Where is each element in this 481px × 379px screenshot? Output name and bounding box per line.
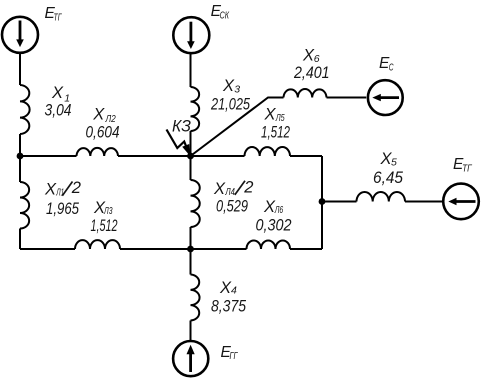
svg-text:Л1: Л1 xyxy=(56,187,65,199)
svg-text:2,401: 2,401 xyxy=(293,64,329,82)
svg-text:1,965: 1,965 xyxy=(46,200,80,218)
svg-text:3,04: 3,04 xyxy=(45,102,72,120)
svg-text:ГГ: ГГ xyxy=(230,351,239,362)
svg-text:3: 3 xyxy=(234,84,240,96)
svg-text:КЗ: КЗ xyxy=(172,118,191,136)
svg-text:0,302: 0,302 xyxy=(256,217,292,235)
svg-text:Л4: Л4 xyxy=(225,186,235,198)
svg-text:СК: СК xyxy=(220,11,230,22)
svg-text:X: X xyxy=(92,105,105,123)
svg-text:0,529: 0,529 xyxy=(216,198,248,216)
svg-text:4: 4 xyxy=(231,285,237,297)
svg-text:2: 2 xyxy=(243,178,253,196)
svg-text:5: 5 xyxy=(391,157,397,169)
svg-text:2: 2 xyxy=(71,179,81,197)
svg-text:21,025: 21,025 xyxy=(210,96,250,114)
svg-text:X: X xyxy=(213,180,226,198)
svg-text:Л5: Л5 xyxy=(275,112,285,124)
svg-text:С: С xyxy=(389,63,394,74)
svg-text:ТГ: ТГ xyxy=(462,164,473,175)
svg-text:1,512: 1,512 xyxy=(91,217,118,235)
svg-text:X: X xyxy=(222,77,235,95)
svg-text:6,45: 6,45 xyxy=(373,169,404,187)
svg-text:1,512: 1,512 xyxy=(261,124,290,142)
svg-text:X: X xyxy=(51,84,64,102)
svg-text:X: X xyxy=(44,181,57,199)
svg-text:8,375: 8,375 xyxy=(211,298,247,316)
svg-text:Л3: Л3 xyxy=(103,205,112,217)
svg-text:0,604: 0,604 xyxy=(86,124,120,142)
svg-text:Л6: Л6 xyxy=(274,204,283,216)
svg-text:ТГ: ТГ xyxy=(54,12,63,23)
svg-text:X: X xyxy=(264,106,277,124)
